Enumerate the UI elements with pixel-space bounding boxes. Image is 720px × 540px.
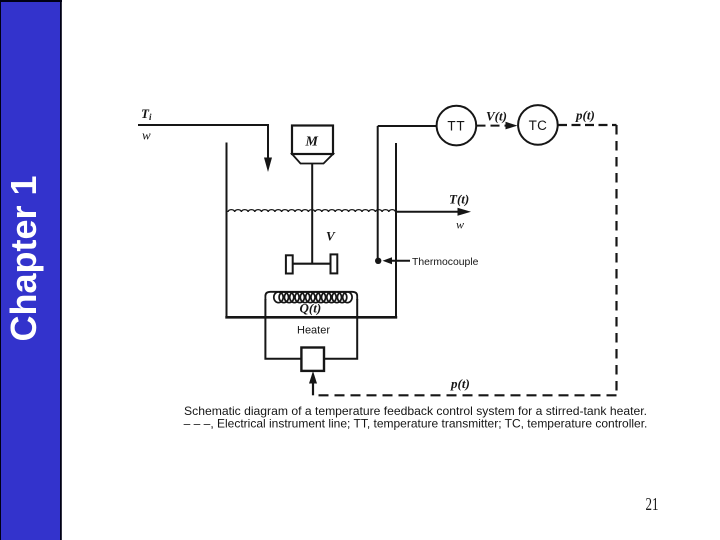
svg-text:– – –, Electrical instrument l: – – –, Electrical instrument line; TT, t… — [184, 416, 648, 430]
dashed signal vertical line — [615, 125, 617, 395]
svg-text:T(t): T(t) — [449, 192, 469, 207]
agitator shaft — [311, 164, 313, 264]
tank bottom — [225, 316, 397, 319]
inlet stream line Ti — [138, 125, 268, 159]
sidebar right border — [60, 0, 62, 540]
svg-text:Chapter 1: Chapter 1 — [3, 175, 44, 341]
motor trapezoid — [292, 154, 333, 164]
thermocouple junction dot — [375, 258, 381, 264]
svg-text:V(t): V(t) — [486, 109, 507, 124]
heater right lead — [324, 299, 357, 359]
svg-text:M: M — [305, 135, 319, 150]
left paddle — [286, 255, 293, 273]
tank left wall — [226, 143, 228, 318]
liquid surface wavy line — [228, 210, 396, 212]
svg-text:p(t): p(t) — [575, 108, 595, 123]
valve actuator riser — [312, 378, 314, 395]
svg-text:Ti: Ti — [141, 106, 152, 122]
thermocouple pointer arrowhead — [383, 257, 393, 264]
motor box M — [292, 126, 333, 155]
svg-text:TC: TC — [529, 118, 548, 133]
svg-text:V: V — [326, 229, 336, 244]
right paddle — [331, 254, 338, 273]
outlet arrowhead — [458, 208, 472, 216]
control valve box — [301, 348, 324, 371]
thermocouple pointer arrow line — [389, 260, 410, 262]
valve arrowhead — [309, 371, 317, 384]
heater coil loops — [274, 292, 352, 303]
dashed signal TT to TC — [477, 125, 510, 127]
inlet arrowhead — [264, 158, 272, 173]
svg-text:p(t): p(t) — [450, 376, 470, 391]
sidebar left edge — [0, 0, 1, 540]
svg-text:w: w — [142, 128, 151, 143]
thermocouple wire — [377, 126, 379, 258]
outlet stream line — [396, 211, 459, 213]
dashed signal TC to corner — [558, 124, 617, 126]
impeller arm — [290, 263, 333, 265]
heater left lead — [265, 299, 301, 359]
svg-text:Thermocouple: Thermocouple — [412, 257, 479, 268]
dashed signal bottom horizontal — [313, 394, 617, 396]
transmitter TT circle — [437, 106, 477, 146]
svg-text:Heater: Heater — [297, 325, 330, 337]
tank right wall — [395, 143, 397, 317]
heater coil top with rounded corners — [265, 292, 357, 300]
sidebar top border — [0, 0, 62, 2]
svg-text:w: w — [456, 218, 464, 232]
controller TC circle — [518, 105, 558, 145]
svg-text:TT: TT — [447, 119, 465, 134]
svg-text:Q(t): Q(t) — [300, 301, 322, 316]
svg-text:21: 21 — [646, 495, 659, 514]
TT connecting line — [378, 125, 436, 127]
sidebar blue bar — [0, 2, 60, 540]
